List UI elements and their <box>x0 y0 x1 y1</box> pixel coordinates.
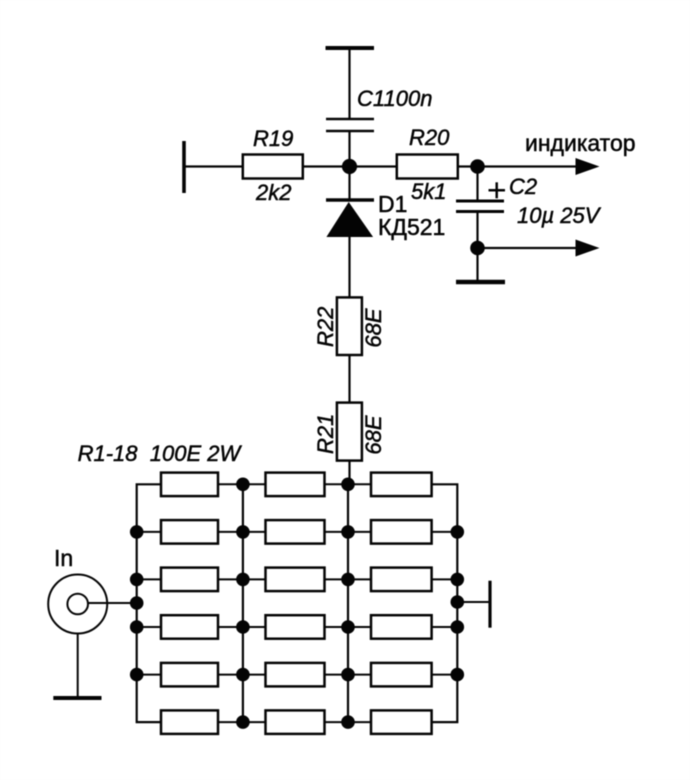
bus line left <box>137 484 161 722</box>
wire <box>458 165 577 167</box>
junction bus1 In node <box>130 596 144 610</box>
wire <box>348 237 350 297</box>
svg-text:5k1: 5k1 <box>411 179 446 204</box>
resistor R6 <box>371 520 432 544</box>
svg-text:C2: C2 <box>509 174 537 199</box>
plus sign <box>489 189 506 192</box>
junction bus4 output node <box>451 595 465 609</box>
wire <box>348 461 350 485</box>
resistor R4 <box>161 520 218 544</box>
wire <box>77 634 79 699</box>
wire row3 col1-bus2 <box>218 578 266 580</box>
wire row1 col1-bus2 <box>218 483 266 485</box>
junction bus3 row6 <box>341 715 355 729</box>
resistor R22 <box>337 297 362 355</box>
svg-text:КД521: КД521 <box>378 214 445 240</box>
wire row5 col3-bus4 <box>432 674 458 676</box>
wire row6 col2-bus3 <box>325 721 372 723</box>
wire row5 col2-bus3 <box>325 674 372 676</box>
junction bus1 row4 <box>130 620 144 634</box>
wire row6 col1-bus2 <box>218 721 266 723</box>
wire row2 col1-bus2 <box>218 531 266 533</box>
resistor R5 <box>266 520 325 544</box>
resistor R14 <box>266 663 325 687</box>
ground bar right <box>456 280 505 285</box>
junction bus1 row2 <box>130 525 144 539</box>
junction bus3 row1 <box>341 478 355 492</box>
resistor R2 <box>266 473 325 497</box>
junction bus2 row4 <box>236 620 250 634</box>
junction bus3 row5 <box>341 668 355 682</box>
resistor R20 <box>397 155 458 179</box>
svg-text:R19: R19 <box>253 126 293 151</box>
resistor R1 <box>161 473 218 497</box>
wire <box>348 355 350 403</box>
arrow indicator bottom <box>576 240 600 257</box>
junction bus2 row5 <box>236 668 250 682</box>
resistor R16 <box>161 710 218 734</box>
wire row2 col2-bus3 <box>325 531 372 533</box>
resistor R9 <box>371 568 432 592</box>
wire <box>348 131 350 200</box>
wire row3 col3-bus4 <box>432 578 458 580</box>
junction bus1 row3 <box>130 573 144 587</box>
svg-text:In: In <box>54 545 73 571</box>
resistor R18 <box>371 710 432 734</box>
svg-text:10µ 25V: 10µ 25V <box>517 203 602 228</box>
antenna/rail terminal bar top <box>326 46 375 50</box>
junction bus4 row5 <box>451 668 465 682</box>
capacitor C2 <box>476 167 478 202</box>
bus line 2 <box>242 484 244 722</box>
junction bus4 row4 <box>451 620 465 634</box>
wire <box>348 48 350 118</box>
resistor bank R1-18 rows <box>137 473 458 734</box>
resistor R10 <box>161 615 218 639</box>
node junction right <box>470 159 485 174</box>
wire bus1 to row5 <box>137 674 161 676</box>
junction bus3 row4 <box>341 620 355 634</box>
arrow indicator top <box>576 158 600 175</box>
junction bus1 row5 <box>130 668 144 682</box>
wire row1 col2-bus3 <box>325 483 372 485</box>
resistor R17 <box>266 710 325 734</box>
connector In <box>48 575 490 699</box>
junction bus2 row2 <box>236 525 250 539</box>
wire <box>478 247 578 249</box>
wire bus1 to row3 <box>137 578 161 580</box>
wire <box>184 165 243 167</box>
node junction center <box>342 159 357 174</box>
junction bus3 row2 <box>341 525 355 539</box>
resistor R3 <box>371 473 432 497</box>
wire row2 col3-bus4 <box>432 531 458 533</box>
svg-text:2k2: 2k2 <box>255 180 291 205</box>
bus line right <box>432 484 458 722</box>
ground bar In <box>53 696 101 700</box>
node junction lower right <box>470 241 485 256</box>
junction bus2 row1 <box>236 478 250 492</box>
wire row4 col1-bus2 <box>218 626 266 628</box>
junction bus2 row3 <box>236 573 250 587</box>
capacitor C1 <box>326 118 374 121</box>
wire bus1 to row4 <box>137 626 161 628</box>
wire row5 col1-bus2 <box>218 674 266 676</box>
resistor R15 <box>371 663 432 687</box>
resistor R11 <box>266 615 325 639</box>
wire <box>303 165 397 167</box>
svg-text:R22: R22 <box>313 307 338 347</box>
bus line 3 <box>347 484 349 722</box>
svg-text:R20: R20 <box>409 125 450 150</box>
wire <box>476 212 478 283</box>
svg-text:R21: R21 <box>313 414 338 454</box>
resistor R8 <box>266 568 325 592</box>
junction dots of bank <box>130 478 464 729</box>
resistor R19 <box>243 155 303 179</box>
junction bus3 row3 <box>341 573 355 587</box>
wire row3 col2-bus3 <box>325 578 372 580</box>
resistor R12 <box>371 615 432 639</box>
svg-text:индикатор: индикатор <box>525 130 636 156</box>
junction bus4 row2 <box>451 525 465 539</box>
wire bus1 to row2 <box>137 531 161 533</box>
svg-text:C1100n: C1100n <box>357 86 432 111</box>
terminal right of bank <box>457 601 489 603</box>
wire row4 col2-bus3 <box>325 626 372 628</box>
svg-text:68E: 68E <box>361 415 386 454</box>
wire <box>88 602 137 604</box>
resistor R7 <box>161 568 218 592</box>
junction bus4 row3 <box>451 573 465 587</box>
junction bus2 row6 <box>236 715 250 729</box>
resistor R13 <box>161 663 218 687</box>
svg-text:68E: 68E <box>361 308 386 347</box>
left terminal bar <box>182 141 186 193</box>
wire row4 col3-bus4 <box>432 626 458 628</box>
resistor R21 <box>337 403 362 461</box>
svg-text:R1-18 100E 2W: R1-18 100E 2W <box>78 441 243 466</box>
diode D1 <box>326 198 374 201</box>
